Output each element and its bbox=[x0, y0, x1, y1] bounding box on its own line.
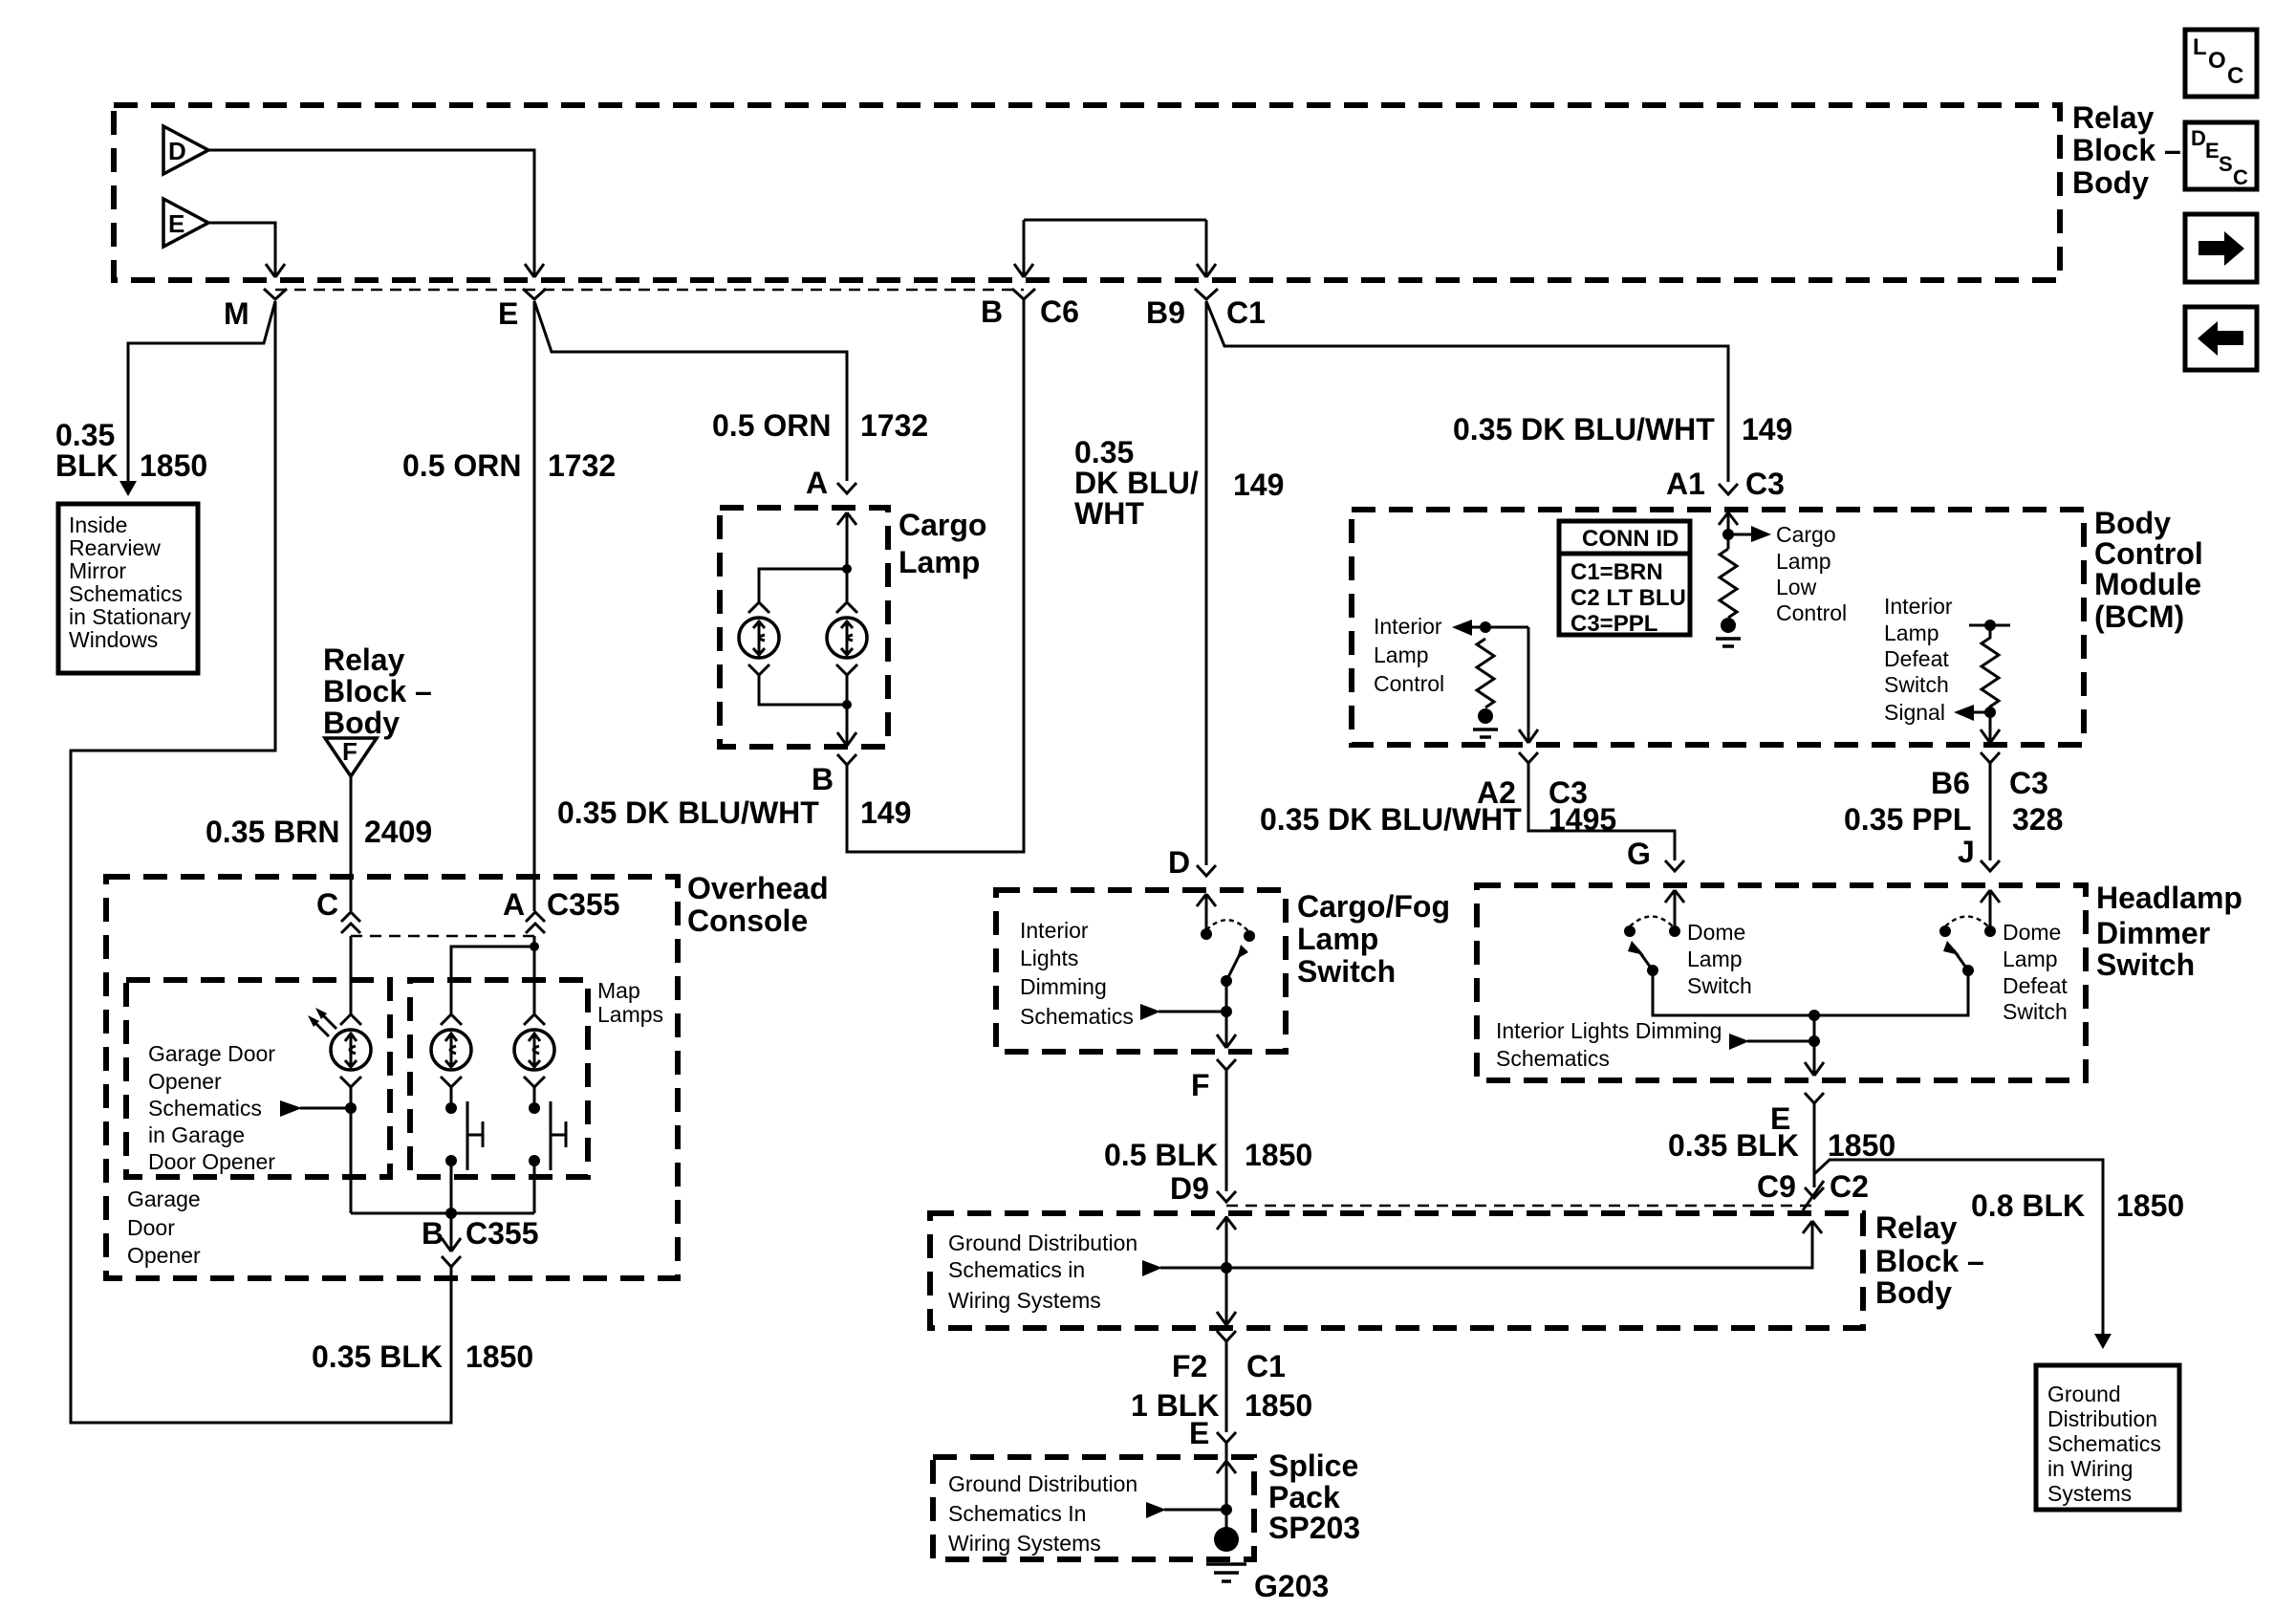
connector strip line C355 (thin dashed C-A) bbox=[351, 935, 535, 937]
connector pin M bbox=[224, 289, 287, 331]
wire arrow into B (from cargo lamp loop) bbox=[1014, 220, 1033, 277]
svg-text:1850: 1850 bbox=[2116, 1188, 2184, 1223]
svg-text:in Stationary: in Stationary bbox=[69, 604, 191, 629]
svg-text:Lights: Lights bbox=[1020, 946, 1078, 970]
svg-text:E: E bbox=[168, 209, 184, 238]
svg-text:A1: A1 bbox=[1666, 467, 1705, 501]
label Headlamp Dimmer Switch bbox=[2096, 881, 2242, 982]
svg-text:Relay: Relay bbox=[323, 642, 405, 677]
svg-text:Wiring Systems: Wiring Systems bbox=[948, 1531, 1101, 1556]
label 0.35 DK BLU/WHT 149 (BCM A1) bbox=[1453, 412, 1792, 446]
wire to A2 exit bbox=[1519, 627, 1538, 743]
interior lamp control arrow and wire bbox=[1452, 620, 1528, 636]
svg-text:D9: D9 bbox=[1170, 1171, 1209, 1206]
connector pin B / C355 (console exit) bbox=[422, 1213, 539, 1267]
svg-text:C355: C355 bbox=[547, 887, 620, 922]
svg-text:1850: 1850 bbox=[1245, 1388, 1312, 1423]
overhead console dashed box bbox=[106, 877, 678, 1278]
svg-text:L: L bbox=[2193, 34, 2207, 60]
svg-text:0.35 DK BLU/WHT: 0.35 DK BLU/WHT bbox=[1453, 412, 1715, 446]
splice ground G203 bbox=[1206, 1527, 1329, 1603]
svg-text:C1: C1 bbox=[1246, 1349, 1286, 1383]
dome lamp defeat switch bbox=[1939, 890, 2000, 976]
svg-text:Defeat: Defeat bbox=[2003, 973, 2068, 998]
svg-text:B: B bbox=[422, 1216, 444, 1251]
triangle connector D bbox=[163, 126, 208, 174]
arrow solid down into ground distribution box bbox=[2094, 1334, 2112, 1349]
resistor interior lamp defeat switch signal bbox=[1969, 620, 2010, 712]
svg-text:D: D bbox=[2191, 126, 2206, 150]
svg-text:Relay: Relay bbox=[2072, 100, 2155, 135]
map lamp left bbox=[431, 1014, 471, 1108]
wire E to C9 (0.35 BLK 1850) bbox=[1813, 1103, 1816, 1187]
svg-text:Lamp: Lamp bbox=[1374, 642, 1429, 667]
svg-text:Schematics: Schematics bbox=[69, 581, 183, 606]
svg-text:Control: Control bbox=[1776, 600, 1847, 625]
svg-text:F: F bbox=[342, 737, 357, 766]
svg-text:Schematics In: Schematics In bbox=[948, 1501, 1086, 1526]
cargo lamp bulb left bbox=[739, 602, 847, 705]
wire A2 to G (0.35 DK BLU/WHT 1495) bbox=[1528, 763, 1675, 860]
svg-text:Rearview: Rearview bbox=[69, 535, 161, 560]
svg-text:Dome: Dome bbox=[2003, 920, 2061, 945]
label Garage Door Opener (box name) bbox=[127, 1186, 201, 1268]
reference text Interior Lights Dimming Schematics bbox=[1020, 918, 1134, 1029]
svg-text:in Garage: in Garage bbox=[148, 1122, 245, 1147]
label Relay Block - Body (top right) bbox=[2072, 100, 2181, 200]
icon DESC bbox=[2185, 122, 2257, 189]
svg-text:0.5 ORN: 0.5 ORN bbox=[712, 408, 831, 443]
connector pin A2 / C3 bbox=[1477, 752, 1588, 810]
svg-text:0.35 DK BLU/WHT: 0.35 DK BLU/WHT bbox=[557, 795, 819, 830]
svg-text:0.35: 0.35 bbox=[55, 418, 115, 452]
connector pin F2 / C1 bbox=[1172, 1331, 1286, 1383]
svg-text:C2 LT BLU: C2 LT BLU bbox=[1570, 585, 1686, 611]
label 0.35 BRN 2409 bbox=[206, 815, 432, 849]
wire branch 0.8 BLK to ground distribution bbox=[1814, 1160, 2103, 1334]
svg-text:C1: C1 bbox=[1226, 295, 1266, 330]
svg-text:Wiring Systems: Wiring Systems bbox=[948, 1288, 1101, 1313]
map lamp right bbox=[514, 1014, 554, 1108]
dimmer switch common wire bbox=[1653, 970, 1968, 1021]
connector pin E (dimmer exit) bbox=[1770, 1093, 1824, 1136]
svg-text:Block –: Block – bbox=[2072, 133, 2181, 167]
svg-text:Lamps: Lamps bbox=[597, 1002, 663, 1027]
svg-text:A: A bbox=[806, 466, 828, 500]
label relay block body (above F triangle) bbox=[323, 642, 432, 740]
svg-text:C: C bbox=[2233, 165, 2248, 189]
svg-text:J: J bbox=[1958, 835, 1975, 869]
svg-text:C3=PPL: C3=PPL bbox=[1570, 611, 1657, 637]
cargo/fog switch wire down with reference arrow bbox=[1140, 981, 1236, 1048]
svg-text:in Wiring: in Wiring bbox=[2047, 1456, 2133, 1481]
svg-text:B9: B9 bbox=[1146, 295, 1185, 330]
svg-text:Block –: Block – bbox=[323, 674, 432, 708]
reference text Interior Lights Dimming Schematics (dimmer) bbox=[1496, 1018, 1722, 1071]
svg-text:Block –: Block – bbox=[1875, 1244, 1984, 1278]
svg-text:149: 149 bbox=[1742, 412, 1792, 446]
svg-text:Map: Map bbox=[597, 978, 640, 1003]
svg-text:Door: Door bbox=[127, 1215, 175, 1240]
connector pin E (splice pack) bbox=[1189, 1416, 1236, 1450]
arrow reference into garage lamp wire bbox=[280, 1100, 351, 1117]
svg-text:0.5 ORN: 0.5 ORN bbox=[402, 448, 521, 483]
wire E branch to cargo lamp bbox=[534, 301, 847, 481]
label Relay Block - Body (bottom) bbox=[1875, 1210, 1984, 1310]
svg-text:Switch: Switch bbox=[2003, 999, 2068, 1024]
connector pin B (cargo lamp) bbox=[812, 754, 856, 796]
label 0.35 PPL 328 bbox=[1844, 802, 2063, 837]
svg-text:Defeat: Defeat bbox=[1884, 646, 1949, 671]
label 0.5 ORN 1732 (left) bbox=[402, 448, 616, 483]
wire B9 branch to BCM A1 bbox=[1206, 301, 1728, 482]
junction dot A1 / cargo lamp low control arrow bbox=[1722, 526, 1771, 542]
svg-text:1495: 1495 bbox=[1549, 802, 1616, 837]
svg-text:1850: 1850 bbox=[466, 1339, 533, 1374]
wire cargo B to relay block B (0.35 DK BLU/WHT 149) bbox=[847, 299, 1024, 852]
label Cargo Lamp Low Control bbox=[1776, 522, 1847, 625]
svg-text:C6: C6 bbox=[1040, 294, 1079, 329]
svg-text:B: B bbox=[981, 294, 1003, 329]
connector pin B6 / C3 bbox=[1931, 752, 2048, 800]
svg-text:Interior: Interior bbox=[1020, 918, 1089, 943]
wire F2 to splice pack (1 BLK 1850) bbox=[1225, 1341, 1228, 1432]
svg-text:Module: Module bbox=[2094, 567, 2201, 601]
cargo lamp dashed box bbox=[720, 508, 888, 747]
svg-text:Switch: Switch bbox=[1687, 973, 1752, 998]
svg-text:0.35 DK BLU/WHT: 0.35 DK BLU/WHT bbox=[1260, 802, 1522, 837]
svg-text:1850: 1850 bbox=[1828, 1128, 1895, 1163]
svg-text:C: C bbox=[316, 887, 338, 922]
svg-text:Garage: Garage bbox=[127, 1186, 201, 1211]
label 0.35 BLK 1850 (console ground wire) bbox=[312, 1339, 533, 1374]
svg-text:Lamp: Lamp bbox=[1687, 947, 1743, 971]
svg-text:Cargo/Fog: Cargo/Fog bbox=[1297, 889, 1450, 924]
svg-text:1732: 1732 bbox=[860, 408, 928, 443]
svg-text:Interior: Interior bbox=[1374, 614, 1442, 639]
svg-text:Console: Console bbox=[687, 903, 808, 938]
svg-text:Ground Distribution: Ground Distribution bbox=[948, 1471, 1137, 1496]
relay block body (top) dashed box bbox=[114, 105, 2060, 280]
svg-text:Interior Lights Dimming: Interior Lights Dimming bbox=[1496, 1018, 1722, 1043]
svg-text:Schematics: Schematics bbox=[1496, 1046, 1610, 1071]
svg-text:C: C bbox=[2227, 63, 2243, 89]
svg-text:Garage Door: Garage Door bbox=[148, 1041, 275, 1066]
label 0.5 BLK 1850 bbox=[1104, 1138, 1312, 1172]
wire A into map lamps with junction bbox=[451, 936, 539, 1013]
label Splice Pack SP203 bbox=[1268, 1448, 1360, 1545]
resistor interior lamp control bbox=[1477, 639, 1494, 708]
svg-text:Ground: Ground bbox=[2047, 1382, 2121, 1406]
svg-text:Inside: Inside bbox=[69, 512, 127, 537]
connector pin A (cargo lamp) bbox=[806, 466, 856, 500]
arrow solid down into mirror box bbox=[119, 481, 137, 496]
reference box Inside Rearview Mirror Schematics in Stationary Windows bbox=[58, 504, 198, 673]
svg-text:M: M bbox=[224, 296, 249, 331]
wire F to D9 (0.5 BLK 1850) bbox=[1225, 1070, 1228, 1191]
ground (interior lamp control) bbox=[1473, 708, 1498, 737]
label 0.35 BLK 1850 (dimmer) bbox=[1668, 1128, 1895, 1163]
wire B6 to J (0.35 PPL 328) bbox=[1989, 763, 1992, 860]
splice pack dashed box bbox=[933, 1457, 1254, 1559]
svg-text:Mirror: Mirror bbox=[69, 558, 126, 583]
ground bus wire to C9 riser bbox=[1226, 1221, 1822, 1268]
label Map Lamps bbox=[597, 978, 663, 1027]
connector pin F (cargo/fog exit) bbox=[1191, 1059, 1236, 1102]
wire C into garage door opener lamp bbox=[350, 936, 353, 1013]
svg-text:Low: Low bbox=[1776, 575, 1817, 599]
wire into cargo lamp (arrow up) bbox=[837, 512, 856, 569]
svg-text:S: S bbox=[2219, 152, 2233, 176]
svg-text:Systems: Systems bbox=[2047, 1481, 2132, 1506]
svg-text:(BCM): (BCM) bbox=[2094, 599, 2184, 634]
svg-text:C1=BRN: C1=BRN bbox=[1570, 559, 1663, 585]
svg-text:Relay: Relay bbox=[1875, 1210, 1958, 1245]
svg-text:DK BLU/: DK BLU/ bbox=[1074, 466, 1199, 500]
svg-text:Switch: Switch bbox=[1297, 954, 1396, 989]
svg-text:E: E bbox=[1189, 1416, 1209, 1450]
svg-text:Interior: Interior bbox=[1884, 594, 1953, 619]
svg-text:Body: Body bbox=[2094, 506, 2171, 540]
svg-text:Dimmer: Dimmer bbox=[2096, 916, 2210, 950]
connector pin G bbox=[1627, 837, 1684, 871]
relay block body (bottom) dashed box bbox=[930, 1213, 1863, 1328]
svg-text:Opener: Opener bbox=[148, 1069, 222, 1094]
icon arrow right bbox=[2185, 214, 2257, 282]
svg-text:C355: C355 bbox=[466, 1216, 539, 1251]
svg-text:Dimming: Dimming bbox=[1020, 974, 1107, 999]
svg-text:G203: G203 bbox=[1254, 1569, 1329, 1603]
svg-text:Lamp: Lamp bbox=[2003, 947, 2058, 971]
svg-text:Switch: Switch bbox=[1884, 672, 1949, 697]
connector pin A / C355 bbox=[503, 887, 620, 933]
wire arrow into B9 (from cargo lamp loop) bbox=[1197, 220, 1216, 277]
resistor cargo lamp low control bbox=[1720, 549, 1737, 618]
label 1 BLK 1850 bbox=[1131, 1388, 1312, 1423]
wire loop inside relay block B to B9 bbox=[1024, 219, 1206, 222]
wire to B6 exit bbox=[1981, 712, 2000, 743]
wire E into splice pack bbox=[1217, 1443, 1236, 1528]
headlamp dimmer switch dashed box bbox=[1477, 885, 2086, 1080]
reference text Ground Distribution Schematics in Wiring Systems (relay block) bbox=[948, 1230, 1137, 1313]
connector pin D (cargo/fog switch) bbox=[1168, 845, 1216, 880]
signal arrow and junction bbox=[1954, 705, 1996, 721]
wire A1 into BCM bbox=[1719, 512, 1738, 549]
label Cargo Lamp bbox=[899, 508, 986, 579]
junction dot cargo top bbox=[759, 564, 852, 601]
svg-text:E: E bbox=[498, 296, 518, 331]
svg-text:149: 149 bbox=[1233, 468, 1284, 502]
svg-text:Opener: Opener bbox=[127, 1243, 201, 1268]
label 0.8 BLK 1850 bbox=[1971, 1188, 2184, 1223]
reference text Garage Door Opener Schematics in Garage Door Opener bbox=[148, 1041, 275, 1174]
junction dot garage lamp bbox=[345, 1102, 357, 1114]
label 0.35 BLK 1850 (mirror wire) bbox=[55, 418, 207, 483]
svg-text:0.35: 0.35 bbox=[1074, 435, 1134, 469]
svg-text:E: E bbox=[2205, 139, 2220, 163]
svg-text:Cargo: Cargo bbox=[899, 508, 986, 542]
map lamp right switch bbox=[529, 1101, 566, 1213]
connector strip line D9-C9 (thin dashed) bbox=[1226, 1205, 1813, 1207]
svg-text:Switch: Switch bbox=[2096, 947, 2195, 982]
svg-text:CONN ID: CONN ID bbox=[1582, 526, 1679, 552]
cargo/fog switch contacts and lever bbox=[1197, 894, 1255, 987]
svg-text:1850: 1850 bbox=[140, 448, 207, 483]
console ground bus wire bbox=[351, 1208, 534, 1219]
svg-text:Overhead: Overhead bbox=[687, 871, 829, 905]
svg-text:O: O bbox=[2208, 48, 2226, 74]
svg-text:0.5 BLK: 0.5 BLK bbox=[1104, 1138, 1218, 1172]
svg-text:F2: F2 bbox=[1172, 1349, 1207, 1383]
connector pin A1 / C3 bbox=[1666, 467, 1785, 501]
svg-text:Body: Body bbox=[1875, 1275, 1952, 1310]
ground (cargo lamp low control) bbox=[1716, 618, 1741, 646]
svg-text:Door Opener: Door Opener bbox=[148, 1149, 275, 1174]
cargo/fog lamp switch dashed box bbox=[996, 890, 1286, 1052]
label Dome Lamp Switch bbox=[1687, 920, 1752, 998]
triangle connector E bbox=[163, 199, 208, 247]
svg-text:Headlamp: Headlamp bbox=[2096, 881, 2242, 915]
svg-text:G: G bbox=[1627, 837, 1651, 871]
svg-text:1732: 1732 bbox=[548, 448, 616, 483]
label Dome Lamp Defeat Switch bbox=[2003, 920, 2068, 1024]
map lamp left switch bbox=[445, 1101, 483, 1213]
svg-text:0.35 PPL: 0.35 PPL bbox=[1844, 802, 1971, 837]
svg-text:328: 328 bbox=[2012, 802, 2063, 837]
label Interior Lamp Defeat Switch Signal bbox=[1884, 594, 1953, 725]
svg-text:Cargo: Cargo bbox=[1776, 522, 1836, 547]
wire F to console C (0.35 BRN 2409) bbox=[350, 776, 353, 911]
cargo lamp bulb right bbox=[827, 569, 867, 705]
garage door opener LED lamp bbox=[308, 1008, 371, 1213]
wire D9 through relay block bbox=[1217, 1216, 1236, 1325]
svg-text:C9: C9 bbox=[1757, 1169, 1796, 1204]
svg-text:Ground Distribution: Ground Distribution bbox=[948, 1230, 1137, 1255]
svg-text:0.35 BLK: 0.35 BLK bbox=[1668, 1128, 1799, 1163]
svg-text:Lamp: Lamp bbox=[899, 545, 980, 579]
label 0.35 DK BLU/WHT 149 (vertical stack) bbox=[1074, 435, 1284, 531]
svg-text:B: B bbox=[812, 762, 834, 796]
junction dot cargo bottom bbox=[842, 700, 852, 709]
connector pin B9 / C1 bbox=[1146, 289, 1266, 330]
connector pin B / C6 bbox=[981, 289, 1079, 329]
connector pin E bbox=[498, 289, 546, 331]
svg-text:F: F bbox=[1191, 1068, 1210, 1102]
map lamps inner dashed box bbox=[410, 980, 588, 1177]
svg-text:BLK: BLK bbox=[55, 448, 119, 483]
svg-text:D: D bbox=[168, 137, 186, 165]
junction dot splice reference bbox=[1146, 1502, 1232, 1518]
label 0.35 DK BLU/WHT 149 (cargo B) bbox=[557, 795, 911, 830]
svg-text:Body: Body bbox=[323, 706, 400, 740]
arrow reference into ground bus bbox=[1142, 1260, 1226, 1276]
svg-text:Splice: Splice bbox=[1268, 1448, 1358, 1483]
wire out of cargo lamp (arrow down) bbox=[837, 705, 856, 746]
svg-text:Signal: Signal bbox=[1884, 700, 1945, 725]
svg-text:Lamp: Lamp bbox=[1297, 922, 1378, 956]
connector pin C (C355) bbox=[316, 887, 360, 933]
svg-text:Schematics: Schematics bbox=[1020, 1004, 1134, 1029]
svg-text:SP203: SP203 bbox=[1268, 1511, 1360, 1545]
svg-text:2409: 2409 bbox=[364, 815, 432, 849]
reference text Ground Distribution Schematics In Wiring Systems (splice) bbox=[948, 1471, 1137, 1556]
dimmer reference arrow and exit wire bbox=[1729, 1015, 1824, 1076]
svg-text:Pack: Pack bbox=[1268, 1480, 1340, 1514]
svg-text:Windows: Windows bbox=[69, 627, 158, 652]
CONN ID table bbox=[1559, 521, 1690, 637]
icon LOC bbox=[2185, 30, 2257, 97]
junction dot ground bus bbox=[1221, 1262, 1232, 1274]
svg-text:149: 149 bbox=[860, 795, 911, 830]
label Interior Lamp Control bbox=[1374, 614, 1444, 696]
svg-text:0.35 BLK: 0.35 BLK bbox=[312, 1339, 443, 1374]
wire M ground run (M down, left, down, right to console B) bbox=[71, 301, 451, 1423]
wire from E to connector M bbox=[208, 223, 285, 277]
label 0.5 ORN 1732 (cargo) bbox=[712, 408, 928, 443]
wire B9 down to D (0.35 DK BLU/WHT 149) bbox=[1205, 301, 1208, 865]
svg-text:1850: 1850 bbox=[1245, 1138, 1312, 1172]
wire from D to connector E bbox=[208, 150, 544, 277]
dome lamp switch bbox=[1624, 890, 1684, 976]
svg-text:Dome: Dome bbox=[1687, 920, 1745, 945]
reference box Ground Distribution Schematics in Wiring Systems (right) bbox=[2036, 1365, 2179, 1510]
connector strip line C6 (thin dashed M-E-B) bbox=[275, 289, 1024, 291]
icon arrow left bbox=[2185, 307, 2257, 370]
svg-text:A: A bbox=[503, 887, 525, 922]
connector pin C9 / C2 bbox=[1757, 1169, 1869, 1210]
connector pin D9 bbox=[1170, 1171, 1236, 1206]
label 0.35 DK BLU/WHT 1495 bbox=[1260, 802, 1616, 837]
svg-text:Schematics: Schematics bbox=[2047, 1431, 2161, 1456]
label Overhead Console bbox=[687, 871, 829, 938]
label Cargo/Fog Lamp Switch bbox=[1297, 889, 1450, 989]
svg-text:Distribution: Distribution bbox=[2047, 1406, 2157, 1431]
svg-text:B6: B6 bbox=[1931, 766, 1970, 800]
wire E main down to overhead console A (0.5 ORN 1732) bbox=[533, 301, 536, 911]
body control module dashed box bbox=[1352, 510, 2084, 745]
svg-text:Control: Control bbox=[2094, 536, 2203, 571]
wire M branch to mirror reference (0.35 BLK 1850) bbox=[128, 301, 275, 481]
label Body Control Module (BCM) bbox=[2094, 506, 2203, 634]
svg-text:Lamp: Lamp bbox=[1884, 620, 1939, 645]
svg-text:C3: C3 bbox=[1745, 467, 1785, 501]
garage door opener inner dashed box bbox=[126, 980, 390, 1177]
svg-text:Body: Body bbox=[2072, 165, 2149, 200]
svg-text:Schematics: Schematics bbox=[148, 1096, 262, 1121]
svg-text:Lamp: Lamp bbox=[1776, 549, 1831, 574]
svg-text:WHT: WHT bbox=[1074, 496, 1144, 531]
connector pin J bbox=[1958, 835, 2000, 871]
svg-text:C3: C3 bbox=[2009, 766, 2048, 800]
svg-text:Schematics in: Schematics in bbox=[948, 1257, 1085, 1282]
svg-text:0.8 BLK: 0.8 BLK bbox=[1971, 1188, 2085, 1223]
svg-text:D: D bbox=[1168, 845, 1190, 880]
svg-text:0.35 BRN: 0.35 BRN bbox=[206, 815, 340, 849]
triangle connector F bbox=[325, 737, 377, 776]
svg-text:Control: Control bbox=[1374, 671, 1444, 696]
svg-text:C2: C2 bbox=[1830, 1169, 1869, 1204]
